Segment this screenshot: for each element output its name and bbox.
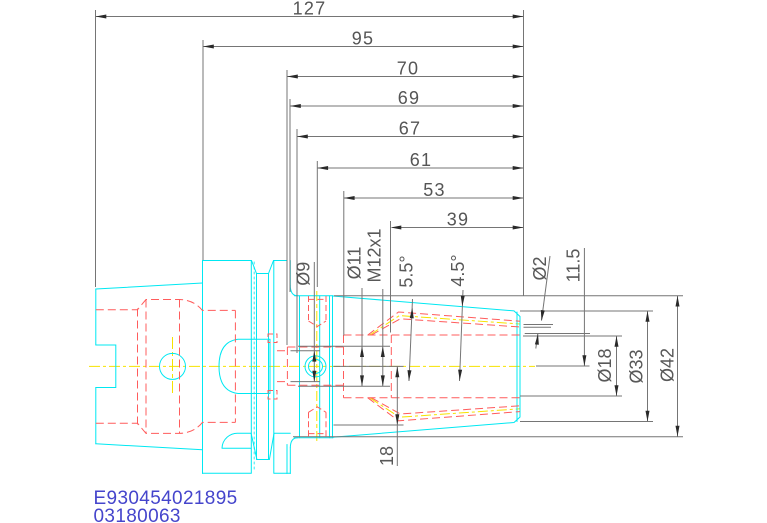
drive slot walls	[251, 433, 290, 459]
arrows 18	[395, 367, 399, 378]
shank bore top	[96, 300, 236, 311]
dim line d9	[313, 262, 315, 382]
dim line diameter 42	[677, 296, 679, 437]
dim line 18	[396, 367, 398, 467]
arrows 95	[203, 45, 214, 49]
dim line 61	[317, 167, 523, 169]
dim line 95	[203, 46, 524, 48]
extension line x392	[390, 221, 392, 333]
ext lines diameter 33	[520, 311, 653, 422]
dim line diameter 18	[616, 336, 618, 396]
radial hole vertical centerline	[316, 291, 318, 444]
coolant pipe lines	[524, 325, 591, 334]
arrows 53	[344, 196, 355, 200]
arrows d2	[540, 310, 545, 321]
ext pair d11	[291, 351, 321, 382]
arrows for vertical dims	[312, 296, 679, 437]
neck bottom edge	[295, 437, 334, 439]
shank taper top	[96, 283, 203, 289]
svg-text:67: 67	[399, 119, 421, 139]
flange groove hidden line	[253, 262, 255, 472]
arrows d9	[312, 351, 316, 362]
svg-text:69: 69	[398, 88, 420, 108]
svg-text:127: 127	[293, 0, 327, 19]
nut face inner edge	[516, 312, 518, 422]
shank left face	[95, 289, 97, 444]
drive hole vertical centerline	[172, 337, 174, 396]
arrows 39	[391, 226, 402, 230]
fillet bottom	[290, 438, 297, 448]
svg-text:03180063: 03180063	[94, 506, 181, 523]
main horizontal centerline	[89, 365, 535, 367]
arrows 69	[290, 104, 301, 108]
dim line d11	[361, 288, 363, 386]
shank bore bottom	[96, 422, 236, 433]
svg-text:4.5°: 4.5°	[448, 254, 468, 286]
extension line left face	[95, 10, 97, 287]
svg-text:Ø9: Ø9	[294, 262, 314, 286]
dim line M12	[382, 289, 384, 386]
extension line flange face	[202, 40, 204, 260]
collar rings	[268, 334, 277, 399]
rotated labels	[294, 228, 678, 466]
dim line 127	[96, 16, 524, 18]
extension line x317	[316, 161, 318, 287]
arrows d18	[615, 336, 619, 347]
svg-text:70: 70	[397, 59, 419, 79]
nut rear face	[330, 296, 333, 438]
arrows 67	[297, 135, 308, 139]
radial hole top	[309, 296, 327, 327]
svg-text:Ø33: Ø33	[627, 349, 647, 383]
thread pocket rect sides	[344, 335, 392, 398]
bore verticals	[138, 300, 236, 434]
shank taper bottom	[96, 444, 203, 450]
extension line right	[523, 10, 525, 296]
svg-text:18: 18	[377, 446, 397, 466]
svg-text:Ø2: Ø2	[530, 256, 550, 280]
dim line 67	[297, 136, 524, 138]
arrows 61	[317, 166, 328, 170]
nut cone outline	[333, 296, 521, 437]
flange right face	[287, 261, 290, 474]
leader 5.5	[409, 299, 413, 381]
radial hole bottom	[309, 407, 327, 438]
arrows d42	[676, 296, 680, 307]
ext pair M12	[298, 346, 390, 386]
arrows 127	[96, 15, 107, 19]
svg-text:Ø18: Ø18	[595, 348, 615, 382]
collet taper lower	[368, 398, 520, 421]
ext lines diameter 18	[520, 336, 622, 396]
flange left face	[202, 261, 204, 474]
leader 4.5	[460, 290, 464, 381]
arrows for horizontal dims	[96, 15, 524, 230]
arrow 11.5	[582, 355, 586, 366]
flange top edge and V-groove	[203, 261, 288, 274]
ext line 18	[334, 424, 404, 426]
neck bore lines	[277, 347, 344, 385]
dim line 69	[290, 105, 524, 107]
drawbar tongue	[219, 339, 270, 393]
coolant hole circles	[305, 356, 326, 377]
centerline extension	[334, 365, 404, 367]
neck step vertical	[300, 296, 320, 438]
leader diameter 2	[542, 256, 551, 321]
svg-text:61: 61	[410, 150, 432, 170]
extension line x297	[296, 129, 298, 353]
arrows M12	[381, 346, 385, 357]
extension line x290	[289, 99, 291, 292]
pocket / collet bore lines	[344, 335, 524, 398]
collet taper centerline lower	[370, 398, 520, 417]
arrows 70	[287, 75, 298, 79]
svg-text:M12x1: M12x1	[365, 228, 385, 282]
shank end notch	[96, 345, 116, 388]
dim line 53	[344, 197, 524, 199]
ext lines diameter 42	[293, 296, 683, 437]
dim line diameter 33	[647, 311, 649, 422]
svg-text:Ø42: Ø42	[658, 348, 678, 382]
fillet top	[290, 286, 297, 296]
flange bottom edge and V-groove	[203, 472, 291, 474]
flange groove verticals	[251, 261, 273, 474]
arrows 4.5 deg	[460, 296, 464, 307]
arrows 5.5 deg	[410, 307, 415, 318]
svg-text:5.5°: 5.5°	[397, 255, 417, 287]
drive slot sail	[222, 433, 251, 448]
svg-text:95: 95	[352, 29, 374, 49]
ext line 11.5	[536, 365, 590, 367]
svg-text:Ø11: Ø11	[345, 247, 365, 280]
svg-text:39: 39	[447, 210, 469, 230]
collet taper centerline upper	[370, 316, 520, 335]
horizontal dim texts	[293, 0, 470, 230]
arrows d33	[646, 311, 650, 322]
svg-text:53: 53	[423, 180, 445, 200]
dim line 39	[392, 227, 523, 229]
extension line x344	[343, 191, 345, 336]
dim line 11.5	[583, 248, 585, 366]
extension line x287	[286, 70, 288, 345]
collet taper upper	[368, 312, 520, 335]
arrows d11	[360, 346, 364, 357]
small arrow line under pipe	[536, 334, 538, 349]
dim line 70	[287, 76, 524, 78]
neck top edge	[295, 295, 334, 297]
drive hole circle	[160, 353, 186, 379]
svg-text:11.5: 11.5	[564, 249, 584, 283]
